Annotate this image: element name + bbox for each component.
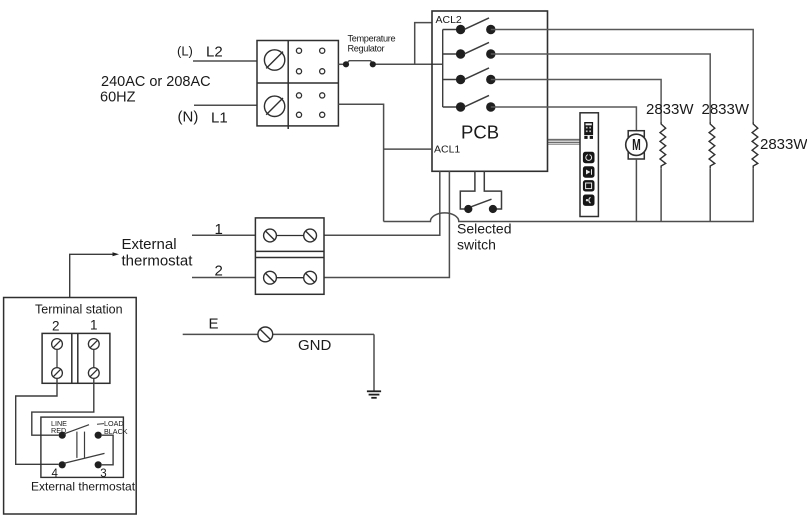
wire K1 to heater R3 — [491, 30, 753, 123]
label 1 — [215, 221, 223, 238]
label 1 (station) — [90, 318, 98, 333]
wire GND drop — [373, 334, 375, 391]
svg-text:ACL2: ACL2 — [436, 14, 462, 26]
contact 3 — [95, 461, 102, 468]
label 2833W (R1) — [646, 101, 694, 118]
svg-text:Regulator: Regulator — [348, 44, 385, 54]
svg-text:E: E — [209, 315, 219, 332]
svg-text:M: M — [632, 136, 641, 154]
label 240AC or 208AC — [101, 74, 211, 90]
relay bus wire — [443, 30, 461, 108]
svg-text:240AC or 208AC: 240AC or 208AC — [101, 74, 211, 90]
terminal block TB1 power input — [257, 41, 338, 130]
terminal block TB3 — [42, 333, 110, 383]
selected switch contact right — [489, 205, 497, 213]
ground — [367, 391, 381, 398]
svg-text:External thermostat: External thermostat — [31, 480, 136, 494]
terminal station enclosure — [4, 298, 137, 515]
wire terminal 2 to contact 4 — [16, 378, 59, 464]
screw terminal TB1-L2 — [264, 50, 284, 70]
ribbon cable PCB to panel — [548, 139, 581, 144]
selected switch lever — [471, 199, 492, 207]
arrowhead — [113, 252, 120, 256]
svg-text:1: 1 — [90, 318, 98, 333]
svg-text:Selected: Selected — [457, 221, 511, 237]
leader line LOAD — [97, 423, 104, 426]
wire motor to neutral bus — [635, 159, 637, 222]
label (L) L2 — [177, 43, 223, 60]
contact LOAD BLACK — [95, 432, 102, 439]
svg-text:thermostat: thermostat — [122, 253, 194, 270]
label ACL2 — [436, 14, 462, 26]
wire terminal 1 stub — [192, 234, 255, 236]
svg-text:External: External — [122, 236, 177, 253]
label LINE RED — [51, 419, 67, 435]
label 2833W (R2) — [702, 101, 750, 118]
wire regulator to PCB bus — [373, 63, 443, 65]
PCB U1 — [432, 11, 548, 171]
wire terminal 2 stub — [192, 277, 255, 279]
label Temperature Regulator — [348, 33, 396, 53]
svg-text:4: 4 — [52, 468, 59, 480]
wire TB2 row2 link — [276, 277, 303, 279]
selected switch contact left — [464, 205, 472, 213]
svg-text:2833W: 2833W — [702, 101, 750, 118]
contact LINE RED — [59, 432, 66, 439]
label Terminal station — [35, 303, 123, 317]
control panel button 2 — [583, 166, 595, 177]
control panel button 4 — [583, 195, 595, 206]
label 2 — [215, 262, 223, 279]
screw terminal TB3-2 top — [52, 339, 63, 350]
svg-text:2833W: 2833W — [760, 136, 807, 153]
TB1 clamp holes — [296, 48, 324, 117]
relay switch K4 — [456, 95, 496, 111]
svg-text:GND: GND — [298, 337, 332, 354]
label 2 (station) — [52, 319, 60, 334]
wire LOAD to contact 3 — [102, 435, 113, 465]
thermostat lever pole 1 — [64, 425, 89, 434]
screw terminal TB2-1b — [304, 229, 317, 242]
label 3 — [100, 468, 106, 480]
label External thermostat (box) — [31, 480, 136, 494]
label LOAD BLACK — [104, 419, 128, 436]
screw terminal TB2-2a — [264, 271, 277, 284]
thermostat linkage — [77, 432, 85, 458]
svg-text:60HZ: 60HZ — [100, 90, 136, 106]
heater R3 2833W — [752, 122, 758, 168]
wire arrow to external thermostat — [70, 254, 113, 297]
svg-text:2: 2 — [52, 319, 60, 334]
wire ACL2 branch — [415, 23, 432, 65]
label 60HZ — [100, 90, 136, 106]
svg-text:Terminal station: Terminal station — [35, 303, 123, 317]
wire heater R2 to neutral bus — [709, 168, 711, 221]
label ACL1 — [434, 144, 460, 156]
wire ACL1 — [384, 148, 432, 150]
wire heater R1 to neutral bus — [660, 168, 662, 221]
svg-text:PCB: PCB — [461, 122, 499, 143]
screw terminal TB3-2 bottom — [52, 368, 63, 379]
contact 4 — [59, 461, 66, 468]
label (N) L1 — [178, 109, 228, 127]
wire K2 to heater R2 — [491, 54, 710, 122]
wire L1 input — [194, 104, 257, 106]
screw terminal TB3-1 bottom — [88, 368, 99, 379]
wire K4 to motor M1 — [491, 107, 637, 131]
selected switch S1 — [460, 171, 501, 209]
wire PCB to terminal 1 — [324, 171, 440, 235]
relay switch K1 — [456, 18, 496, 34]
wire TB2 row1 link — [276, 235, 303, 237]
wire terminal 1 to LINE contact — [32, 378, 94, 435]
svg-text:ACL1: ACL1 — [434, 144, 460, 156]
thermal regulator contact A — [343, 61, 349, 67]
screw terminal TB1-L1 — [264, 96, 284, 116]
control panel button 1 — [583, 152, 595, 163]
heater R1 2833W — [660, 122, 666, 168]
wire K3 to heater R1 — [491, 80, 661, 123]
motor M1 — [626, 131, 647, 159]
wire PCB to terminal 2 — [324, 171, 449, 277]
wire L2 input — [193, 60, 257, 62]
label PCB — [461, 122, 499, 143]
svg-text:Temperature: Temperature — [348, 33, 396, 43]
label GND — [298, 337, 332, 354]
svg-text:3: 3 — [100, 468, 106, 480]
wire L2 to regulator — [338, 63, 346, 65]
control panel display — [584, 122, 593, 139]
screw terminal E — [258, 327, 273, 342]
screw terminal TB3-1 top — [88, 339, 99, 350]
wire TB3 column 1 link — [93, 349, 95, 367]
screw terminal TB2-2b — [304, 271, 317, 284]
wire TB3 column 2 link — [56, 349, 58, 367]
svg-text:1: 1 — [215, 221, 223, 238]
svg-text:L2: L2 — [206, 43, 223, 60]
heater R2 2833W — [709, 122, 715, 168]
svg-text:2833W: 2833W — [646, 101, 694, 118]
external thermostat S2 box — [41, 417, 124, 477]
wire E input — [183, 333, 374, 335]
screw terminal TB2-1a — [264, 229, 277, 242]
svg-text:switch: switch — [457, 237, 496, 253]
label E — [209, 315, 219, 332]
svg-text:(N): (N) — [178, 109, 199, 126]
svg-text:(L): (L) — [177, 44, 193, 59]
relay switch K2 — [456, 42, 496, 58]
label Selected switch — [457, 221, 511, 253]
svg-text:L1: L1 — [211, 110, 228, 127]
svg-text:BLACK: BLACK — [104, 427, 128, 436]
control panel — [580, 113, 598, 217]
thermostat lever pole 2 — [64, 453, 104, 463]
label External thermostat — [122, 236, 194, 270]
terminal block TB2 — [255, 218, 324, 294]
relay switch K3 — [456, 68, 496, 84]
label 4 — [52, 468, 59, 480]
thermal regulator contact B — [370, 61, 376, 67]
label 2833W (R3) — [760, 136, 807, 153]
regulator bridge contact — [347, 61, 373, 64]
svg-text:2: 2 — [215, 262, 223, 279]
wire L1 to neutral bus — [338, 104, 383, 221]
neutral bus wire with hop — [384, 168, 754, 221]
control panel button 3 — [583, 180, 595, 191]
